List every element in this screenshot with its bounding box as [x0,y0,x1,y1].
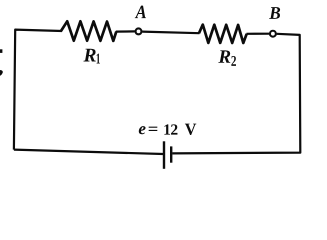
svg-text:=: = [148,121,159,138]
svg-text:R: R [83,46,97,67]
svg-text:1: 1 [96,51,101,67]
svg-text:2: 2 [231,54,237,70]
svg-text:R: R [217,47,231,68]
svg-text:V: V [185,120,197,139]
svg-text:A: A [135,2,147,23]
svg-text:B: B [268,3,280,23]
svg-text:e: e [138,119,146,138]
svg-text:12: 12 [163,122,178,139]
